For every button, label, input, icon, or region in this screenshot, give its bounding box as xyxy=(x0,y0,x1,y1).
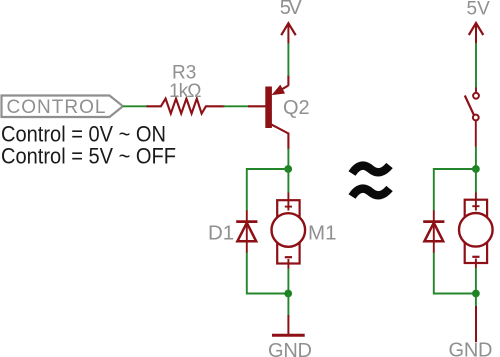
transistor Q2 (PNP) xyxy=(248,75,310,150)
svg-text:CONTROL: CONTROL xyxy=(7,97,106,118)
svg-text:5V: 5V xyxy=(467,0,491,20)
svg-text:GND: GND xyxy=(268,340,312,357)
power 5V arrow (left) xyxy=(281,23,296,43)
svg-text:1kΩ: 1kΩ xyxy=(169,81,202,102)
svg-text:5V: 5V xyxy=(280,0,303,19)
wire branch to diode (right top) xyxy=(434,169,476,211)
wire motor bottom (left) xyxy=(287,269,289,295)
wire diode bottom branch xyxy=(247,253,288,294)
resistor R3 1kΩ xyxy=(147,63,225,114)
wire branch to diode (top) xyxy=(247,169,288,211)
motor (right) xyxy=(459,193,493,269)
wire Q2 collector down xyxy=(287,149,289,170)
wire junction to motor (right) xyxy=(475,169,477,193)
ground pin (right) xyxy=(475,306,477,342)
wire to ground (right) xyxy=(475,294,477,307)
wire switch to junction (right) xyxy=(475,147,477,170)
wire motor bottom (right) xyxy=(475,268,477,294)
diode D (right) xyxy=(423,211,444,254)
ground symbol GND (left) xyxy=(272,315,305,335)
junction node (right bottom) xyxy=(472,290,480,298)
junction node (left bottom) xyxy=(284,290,292,298)
power 5V arrow (right) xyxy=(469,23,484,44)
diode D1 xyxy=(236,211,257,254)
wire junction to motor (left) xyxy=(287,169,289,193)
switch S1 xyxy=(465,88,479,148)
wire R3 to Q2 base xyxy=(224,105,250,107)
net label CONTROL xyxy=(2,96,123,119)
svg-text:Control = 5V ~ OFF: Control = 5V ~ OFF xyxy=(1,144,176,169)
svg-text:M1: M1 xyxy=(308,222,336,245)
svg-text:D1: D1 xyxy=(208,222,234,245)
svg-text:GND: GND xyxy=(449,340,493,357)
wire 5V to switch xyxy=(475,43,477,88)
approx-equal symbol xyxy=(352,166,390,197)
wire 5V to Q2 emitter xyxy=(287,43,289,76)
motor M1 xyxy=(272,193,306,270)
wire diode bottom branch (right) xyxy=(434,253,476,294)
wire to ground (left) xyxy=(287,294,289,316)
junction node (right top) xyxy=(472,165,480,173)
wire from CONTROL tag to R3 xyxy=(123,105,148,107)
svg-text:Q2: Q2 xyxy=(283,97,310,119)
junction node (left top) xyxy=(284,165,292,173)
